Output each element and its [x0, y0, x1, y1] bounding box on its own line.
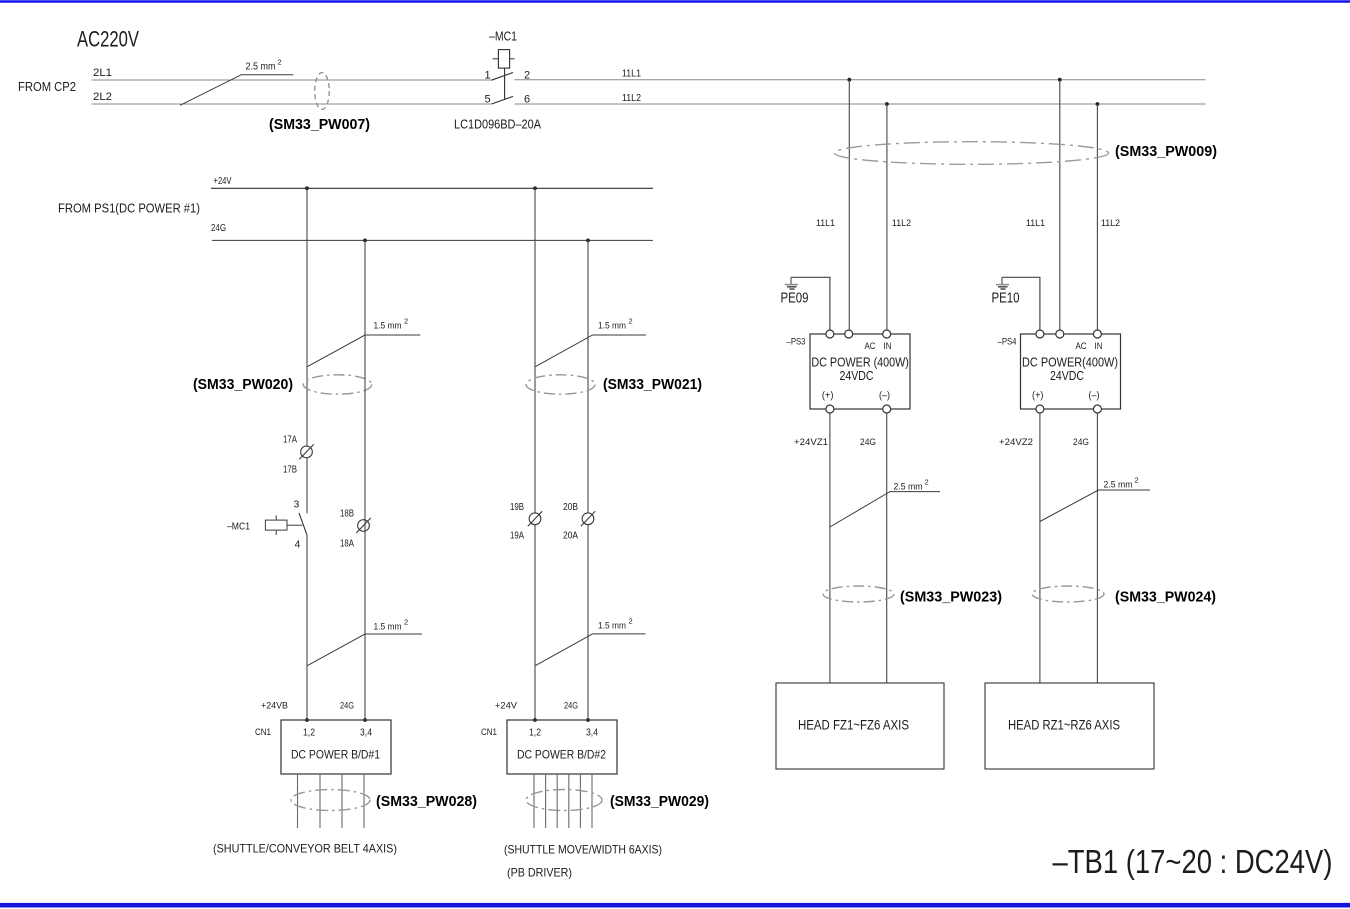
wire 24G rail [212, 239, 653, 241]
pin label AC IN PS3 [865, 341, 892, 351]
contact blade 5-6 [492, 96, 514, 104]
junction F on 11L2 [885, 102, 889, 106]
svg-text:CN1: CN1 [255, 727, 271, 738]
value label 2.5 mm2 [246, 58, 282, 73]
cable shield ellipse SM33_PW029 [526, 790, 602, 811]
cable shield ellipse SM33_PW007 [315, 73, 330, 110]
svg-text:(SM33_PW009): (SM33_PW009) [1115, 144, 1217, 160]
output wires B/D#1 [298, 774, 365, 828]
svg-text:24G: 24G [1073, 437, 1089, 448]
wire branch A lower [306, 535, 308, 720]
svg-text:24VDC: 24VDC [840, 369, 874, 383]
svg-text:HEAD RZ1~RZ6 AXIS: HEAD RZ1~RZ6 AXIS [1008, 717, 1120, 733]
svg-text:DC POWER B/D#1: DC POWER B/D#1 [291, 748, 380, 762]
wire PS4 minus down [1096, 413, 1098, 683]
svg-text:1.5 mm: 1.5 mm [374, 321, 402, 332]
svg-text:3,4: 3,4 [360, 727, 372, 739]
junction at B/D#1 pin 3,4 [363, 718, 367, 722]
wire 2L1 [92, 79, 492, 81]
svg-text:2.5 mm: 2.5 mm [246, 62, 276, 73]
svg-text:24G: 24G [340, 701, 354, 712]
svg-text:LC1D096BD–20A: LC1D096BD–20A [454, 118, 542, 132]
value label 2.5 mm2 PS4 [1104, 476, 1139, 491]
wire drop H [1096, 104, 1098, 331]
svg-text:+24VZ1: +24VZ1 [794, 437, 828, 448]
junction at B/D#2 pin 1,2 [533, 718, 537, 722]
svg-text:2: 2 [629, 617, 633, 626]
power supply box PS3 [810, 334, 910, 409]
terminal IN PS3 [883, 330, 891, 338]
cable shield ellipse SM33_PW021 [526, 375, 595, 394]
contactor MC1 coil [493, 50, 515, 69]
wire PE10 to PS4 [1002, 277, 1040, 330]
cable shield ellipse SM33_PW020 [303, 375, 371, 394]
wire gauge marker 1.5mm2 branch1 [308, 335, 421, 367]
load box HEAD FZ [776, 683, 944, 769]
svg-text:(SM33_PW028): (SM33_PW028) [376, 794, 477, 810]
svg-text:2: 2 [925, 478, 929, 487]
svg-text:3,4: 3,4 [586, 727, 598, 739]
fuse 18 [356, 518, 370, 533]
junction C on +24V [533, 186, 537, 190]
svg-text:(SHUTTLE/CONVEYOR BELT 4AXIS): (SHUTTLE/CONVEYOR BELT 4AXIS) [213, 842, 397, 856]
svg-text:1,2: 1,2 [303, 727, 315, 739]
svg-text:18A: 18A [340, 539, 354, 550]
svg-text:(SM33_PW029): (SM33_PW029) [610, 794, 709, 810]
coil MC1 aux [265, 515, 302, 535]
svg-text:11L1: 11L1 [816, 218, 835, 229]
wire 2L2 [92, 103, 492, 105]
terminal plus PS3 [826, 405, 834, 413]
junction H on 11L2 [1096, 102, 1100, 106]
svg-text:2L2: 2L2 [93, 91, 112, 103]
svg-text:AC: AC [1076, 341, 1088, 351]
junction G on 11L1 [1058, 78, 1062, 82]
svg-text:19B: 19B [510, 502, 524, 513]
svg-text:(–): (–) [879, 391, 890, 402]
wire gauge marker 1.5mm2 branch1 lower [308, 634, 423, 666]
terminal minus PS4 [1093, 405, 1101, 413]
cable shield ellipse SM33_PW024 [1032, 586, 1104, 602]
value label 1.5 mm2 branch2 lower [598, 617, 633, 632]
wire branch C [534, 188, 536, 720]
top blue border [0, 0, 1350, 2]
wire branch A upper [306, 188, 308, 513]
wire gauge marker 2.5mm2 PS3 [830, 492, 940, 527]
svg-text:(SM33_PW021): (SM33_PW021) [603, 377, 702, 393]
svg-text:–PS4: –PS4 [998, 337, 1017, 347]
svg-text:HEAD FZ1~FZ6 AXIS: HEAD FZ1~FZ6 AXIS [798, 717, 909, 733]
svg-text:24G: 24G [211, 223, 226, 234]
svg-text:5: 5 [485, 94, 491, 106]
wire gauge marker 1.5mm2 branch2 [536, 335, 647, 367]
svg-text:24G: 24G [860, 437, 876, 448]
ground PE10 [996, 277, 1009, 289]
svg-text:(–): (–) [1089, 391, 1100, 402]
svg-text:(SM33_PW023): (SM33_PW023) [900, 590, 1002, 606]
value label 1.5 mm2 branch1 lower [374, 618, 409, 633]
svg-text:–TB1 (17~20 : DC24V): –TB1 (17~20 : DC24V) [1053, 844, 1333, 881]
svg-text:AC: AC [865, 341, 877, 351]
svg-text:PE10: PE10 [992, 291, 1020, 307]
value label 1.5 mm2 branch1 [374, 317, 409, 332]
junction B on 24G [363, 239, 367, 243]
wire PS3 minus down [886, 413, 888, 683]
junction at B/D#1 pin 1,2 [305, 718, 309, 722]
svg-text:AC220V: AC220V [77, 27, 139, 52]
pin label AC IN PS4 [1076, 341, 1103, 351]
svg-text:2: 2 [1135, 476, 1139, 485]
svg-text:11L1: 11L1 [1026, 218, 1045, 229]
svg-text:2.5 mm: 2.5 mm [894, 482, 923, 493]
svg-text:(+): (+) [1032, 391, 1044, 402]
junction at B/D#2 pin 3,4 [586, 718, 590, 722]
svg-text:1.5 mm: 1.5 mm [374, 622, 402, 633]
svg-text:(SM33_PW020): (SM33_PW020) [193, 377, 293, 393]
svg-text:4: 4 [295, 539, 301, 551]
wire PS4 plus down [1039, 413, 1041, 683]
cable shield ellipse SM33_PW028 [291, 790, 370, 811]
svg-text:FROM PS1(DC POWER #1): FROM PS1(DC POWER #1) [58, 201, 200, 216]
junction E on 11L1 [847, 78, 851, 82]
box DC POWER B/D#2 [507, 720, 617, 774]
svg-text:20B: 20B [563, 502, 578, 513]
terminal AC PS3 [845, 330, 853, 338]
wire PS3 plus down [829, 413, 831, 683]
svg-text:–PS3: –PS3 [787, 337, 806, 347]
contact blade 1-2 [492, 73, 514, 81]
svg-text:24G: 24G [564, 701, 578, 712]
svg-text:IN: IN [884, 341, 892, 351]
svg-text:CN1: CN1 [481, 727, 497, 738]
wire PE09 to PS3 [791, 277, 830, 330]
cable shield ellipse SM33_PW023 [823, 586, 894, 602]
svg-text:DC POWER B/D#2: DC POWER B/D#2 [517, 748, 606, 762]
svg-text:17B: 17B [283, 465, 297, 476]
svg-text:2: 2 [629, 317, 633, 326]
svg-text:18B: 18B [340, 509, 354, 520]
svg-text:(+): (+) [822, 391, 834, 402]
svg-text:11L2: 11L2 [1101, 218, 1120, 229]
svg-text:(SHUTTLE MOVE/WIDTH 6AXIS): (SHUTTLE MOVE/WIDTH 6AXIS) [504, 843, 662, 857]
svg-text:2: 2 [404, 317, 408, 326]
terminal AC PS4 [1056, 330, 1064, 338]
fuse 19 [528, 511, 542, 526]
junction D on 24G [586, 239, 590, 243]
svg-text:11L1: 11L1 [622, 68, 641, 80]
wire drop F [886, 104, 888, 331]
load box HEAD RZ [985, 683, 1154, 769]
svg-text:PE09: PE09 [781, 291, 809, 307]
cable shield ellipse SM33_PW009 [835, 142, 1109, 165]
fuse 20 [581, 511, 595, 526]
svg-text:–MC1: –MC1 [227, 521, 250, 533]
svg-text:(SM33_PW007): (SM33_PW007) [269, 117, 370, 133]
wire branch B [364, 240, 366, 720]
box DC POWER B/D#1 [281, 720, 391, 774]
value label 1.5 mm2 branch2 [598, 317, 633, 332]
svg-text:17A: 17A [283, 435, 297, 446]
svg-text:FROM CP2: FROM CP2 [18, 80, 76, 94]
ground PE09 [785, 277, 798, 289]
svg-text:(PB DRIVER): (PB DRIVER) [507, 866, 572, 880]
svg-text:(SM33_PW024): (SM33_PW024) [1115, 590, 1216, 606]
mechanical link MC1 [504, 68, 506, 99]
bottom blue border [0, 903, 1350, 908]
svg-text:1.5 mm: 1.5 mm [598, 321, 626, 332]
wire gauge marker 1.5mm2 branch2 lower [536, 634, 646, 666]
fuse 17 [299, 444, 313, 459]
terminal PE PS4 [1036, 330, 1044, 338]
terminal plus PS4 [1036, 405, 1044, 413]
wire +24V rail [211, 187, 653, 189]
wire branch D [587, 240, 589, 720]
junction A on +24V [305, 186, 309, 190]
svg-text:–MC1: –MC1 [489, 30, 517, 44]
terminal PE PS3 [826, 330, 834, 338]
svg-text:+24V: +24V [495, 701, 518, 712]
power supply box PS4 [1021, 334, 1121, 409]
output wires B/D#2 [534, 774, 592, 828]
svg-text:+24VZ2: +24VZ2 [999, 437, 1033, 448]
svg-text:1.5 mm: 1.5 mm [598, 621, 626, 632]
svg-text:1,2: 1,2 [529, 727, 541, 739]
svg-text:2: 2 [278, 58, 282, 67]
wire drop E [848, 80, 850, 331]
contact blade MC1 aux [299, 513, 307, 535]
svg-text:19A: 19A [510, 531, 524, 542]
svg-text:2.5 mm: 2.5 mm [1104, 480, 1133, 491]
value label 2.5 mm2 PS3 [894, 478, 929, 493]
svg-text:3: 3 [294, 499, 300, 511]
wire 11L2 [515, 103, 1206, 105]
svg-text:11L2: 11L2 [622, 92, 641, 104]
svg-text:+24V: +24V [214, 176, 232, 187]
svg-text:2: 2 [404, 618, 408, 627]
svg-text:IN: IN [1095, 341, 1103, 351]
wire gauge marker 2.5mm2 [180, 75, 293, 106]
svg-text:2L1: 2L1 [93, 67, 112, 79]
svg-text:DC POWER (400W): DC POWER (400W) [811, 356, 909, 370]
terminal minus PS3 [883, 405, 891, 413]
terminal IN PS4 [1093, 330, 1101, 338]
svg-text:24VDC: 24VDC [1050, 369, 1084, 383]
wire drop G [1059, 80, 1061, 331]
svg-text:1: 1 [485, 70, 491, 82]
svg-text:DC POWER(400W): DC POWER(400W) [1022, 356, 1118, 370]
svg-text:11L2: 11L2 [892, 218, 911, 229]
wire 11L1 [515, 79, 1206, 81]
wire gauge marker 2.5mm2 PS4 [1040, 490, 1150, 522]
svg-text:20A: 20A [563, 531, 578, 542]
svg-text:+24VB: +24VB [261, 701, 288, 712]
